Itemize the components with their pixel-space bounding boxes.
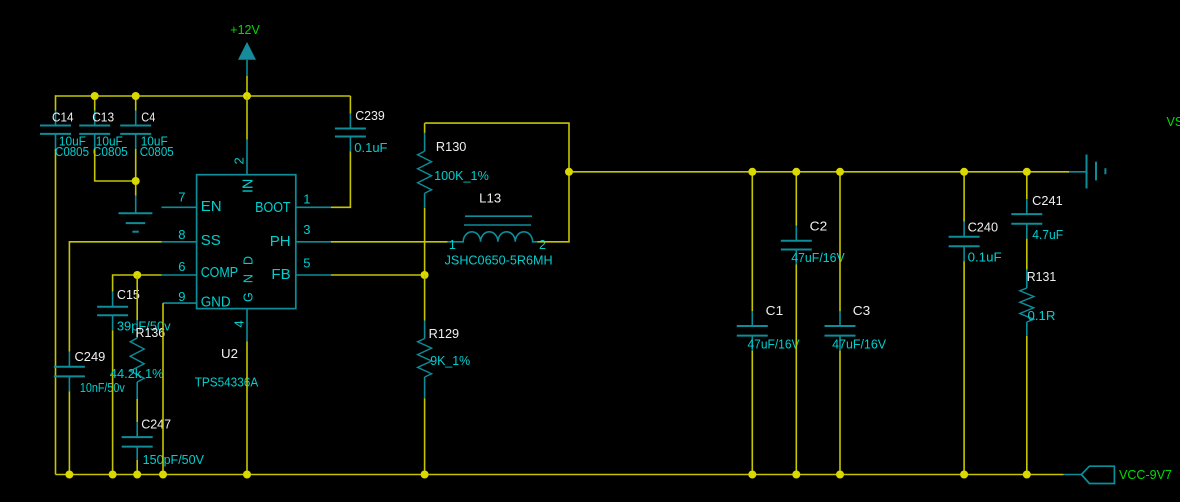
node R129 at bus xyxy=(421,471,429,479)
capacitor C13 xyxy=(79,96,128,159)
svg-text:0.1R: 0.1R xyxy=(1028,309,1056,323)
wire left vertical C14 branch xyxy=(55,95,57,110)
svg-text:3: 3 xyxy=(303,222,310,237)
wire R129 to bus xyxy=(424,398,426,474)
wire R130 bottom to FB node xyxy=(424,208,426,275)
pin 1 BOOT xyxy=(255,192,331,216)
svg-text:C241: C241 xyxy=(1032,194,1063,208)
node C15 at bus xyxy=(109,471,117,479)
svg-text:C3: C3 xyxy=(853,304,871,318)
wire C15 to bus xyxy=(112,330,114,474)
node C3 bottom xyxy=(836,471,844,479)
node C1 bottom xyxy=(748,471,756,479)
resistor R129 xyxy=(418,321,471,399)
svg-text:9K_1%: 9K_1% xyxy=(430,354,470,368)
svg-text:SS: SS xyxy=(201,232,221,249)
wire bottom bus xyxy=(56,474,1064,476)
svg-text:GND: GND xyxy=(201,294,231,311)
svg-text:C13: C13 xyxy=(92,110,114,124)
svg-text:COMP: COMP xyxy=(201,264,238,281)
capacitor C2 xyxy=(781,172,846,265)
svg-text:9: 9 xyxy=(178,289,185,304)
node C1 top xyxy=(748,168,756,176)
node pin9 at bus xyxy=(159,471,167,479)
svg-text:C1: C1 xyxy=(766,304,784,318)
svg-text:C240: C240 xyxy=(968,220,999,234)
svg-text:R131: R131 xyxy=(1027,270,1056,284)
wire C241 to R131 xyxy=(1026,239,1028,270)
svg-text:JSHC0650-5R6MH: JSHC0650-5R6MH xyxy=(445,254,553,268)
svg-text:C249: C249 xyxy=(75,350,106,364)
svg-text:5: 5 xyxy=(303,256,310,271)
svg-text:1: 1 xyxy=(303,192,310,207)
resistor R136 xyxy=(110,320,165,399)
wire R136 to C247 xyxy=(136,399,138,422)
resistor R130 xyxy=(418,123,489,208)
capacitor C4 xyxy=(120,96,174,159)
svg-text:PH: PH xyxy=(270,233,291,250)
node C4 tap xyxy=(132,92,140,100)
wire C13 bottom to C4 join xyxy=(95,149,136,181)
svg-text:0.1uF: 0.1uF xyxy=(968,251,1002,265)
svg-text:1: 1 xyxy=(449,238,456,252)
inductor L13 xyxy=(445,192,553,268)
node C240 bottom xyxy=(960,471,968,479)
wire R131 to bus xyxy=(1026,336,1028,475)
svg-text:C239: C239 xyxy=(355,109,385,123)
svg-text:47uF/16V: 47uF/16V xyxy=(748,337,801,351)
wire C247 to bus xyxy=(136,460,138,475)
svg-text:10nF/50v: 10nF/50v xyxy=(80,381,126,395)
pin 3 PH xyxy=(270,222,331,250)
svg-text:GND: GND xyxy=(241,256,255,302)
svg-text:C14: C14 xyxy=(52,110,74,124)
svg-text:C2: C2 xyxy=(810,219,828,233)
node COMP junction xyxy=(133,271,141,279)
wire C239 to BOOT xyxy=(331,152,350,208)
resistor R131 xyxy=(1020,270,1056,336)
svg-text:8: 8 xyxy=(178,227,185,242)
ground under C4 xyxy=(119,196,153,232)
power +12V xyxy=(230,23,260,96)
svg-text:VS: VS xyxy=(1167,115,1180,129)
wire output rail xyxy=(569,171,1069,173)
svg-text:R129: R129 xyxy=(429,327,459,341)
svg-text:R136: R136 xyxy=(136,326,166,340)
svg-text:C0805: C0805 xyxy=(93,145,128,159)
svg-text:C4: C4 xyxy=(141,110,155,124)
svg-text:C0805: C0805 xyxy=(55,145,89,159)
node R131 at bus xyxy=(1023,471,1031,479)
node C240 top xyxy=(960,168,968,176)
wire top bus xyxy=(56,95,351,97)
node pin4 at bus xyxy=(243,471,251,479)
wire FB to R129 xyxy=(424,275,426,321)
svg-text:U2: U2 xyxy=(221,347,238,361)
svg-text:R130: R130 xyxy=(436,140,467,154)
wire SS net to C249 xyxy=(69,242,161,352)
wire COMP to R136 xyxy=(136,275,138,320)
wire C4 bottom to ground xyxy=(135,149,137,196)
pin 7 EN xyxy=(162,190,222,216)
wire L13 pin2 to output node xyxy=(425,123,569,242)
wire pin4 to bottom bus xyxy=(246,342,248,475)
svg-text:0.1uF: 0.1uF xyxy=(354,141,388,155)
node C13/C4 join xyxy=(132,177,140,185)
capacitor C1 xyxy=(737,172,800,351)
svg-text:44.2k 1%: 44.2k 1% xyxy=(110,367,164,381)
svg-text:4.7uF: 4.7uF xyxy=(1032,228,1063,242)
svg-text:6: 6 xyxy=(178,259,185,274)
capacitor C240 xyxy=(949,172,1002,265)
node C2 top xyxy=(792,168,800,176)
op-amp U2 TPS54336A body xyxy=(195,175,296,390)
ground right xyxy=(1069,155,1105,189)
svg-text:C0805: C0805 xyxy=(140,145,174,159)
svg-text:+12V: +12V xyxy=(230,23,260,37)
node FB junction xyxy=(421,271,429,279)
svg-text:FB: FB xyxy=(271,266,290,283)
svg-text:4: 4 xyxy=(231,320,246,327)
svg-text:47uF/16V: 47uF/16V xyxy=(791,251,845,265)
svg-text:47uF/16V: 47uF/16V xyxy=(832,337,887,351)
pin 2 IN xyxy=(231,140,256,193)
pin 6 COMP xyxy=(162,259,239,281)
node C247 at bus xyxy=(133,471,141,479)
svg-text:L13: L13 xyxy=(479,192,501,206)
node C13 tap xyxy=(91,92,99,100)
wire BOOT/PH nets to L13 xyxy=(331,241,448,243)
capacitor C239 xyxy=(335,96,388,155)
svg-text:100K_1%: 100K_1% xyxy=(434,169,489,183)
wire bus to pin2 IN xyxy=(246,96,248,140)
capacitor C3 xyxy=(825,172,887,351)
capacitor C15 xyxy=(97,288,171,334)
node +12V on bus xyxy=(243,92,251,100)
svg-text:2: 2 xyxy=(231,157,246,164)
wire pin9 to bus xyxy=(162,303,164,474)
node output at L13 xyxy=(565,168,573,176)
capacitor C247 xyxy=(122,418,205,467)
svg-text:C247: C247 xyxy=(141,418,171,432)
capacitor C249 xyxy=(54,350,126,395)
svg-text:150pF/50V: 150pF/50V xyxy=(143,453,205,467)
svg-text:2: 2 xyxy=(539,238,546,252)
node C249 at bus xyxy=(65,471,73,479)
svg-text:BOOT: BOOT xyxy=(255,199,291,216)
pin 4 GND bottom xyxy=(231,256,255,342)
svg-text:EN: EN xyxy=(201,198,222,215)
wire FB net xyxy=(331,274,425,276)
node C3 top xyxy=(836,168,844,176)
capacitor C241 xyxy=(1011,172,1063,242)
pin 8 SS xyxy=(162,227,221,249)
net tag VCC-9V7 xyxy=(1064,466,1173,483)
pin 5 FB xyxy=(271,256,331,284)
node C241 top xyxy=(1023,168,1031,176)
wire COMP net xyxy=(113,275,162,292)
svg-text:IN: IN xyxy=(239,179,256,193)
svg-text:TPS54336A: TPS54336A xyxy=(195,375,259,389)
pin 9 GND xyxy=(163,289,231,311)
node C2 bottom xyxy=(792,471,800,479)
svg-text:7: 7 xyxy=(178,190,185,205)
svg-text:VCC-9V7: VCC-9V7 xyxy=(1119,468,1172,482)
capacitor C14 xyxy=(40,110,89,159)
wire C249 to bus xyxy=(68,391,70,474)
